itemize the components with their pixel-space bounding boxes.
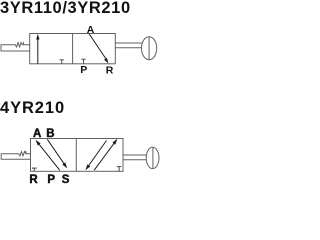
svg-text:A: A — [33, 128, 41, 140]
V2 right cell diagonal arrow A to R — [88, 141, 106, 167]
svg-text:R: R — [106, 65, 114, 77]
V1 right cell flow diagonal A to R — [89, 34, 106, 60]
svg-text:S: S — [62, 174, 70, 185]
V2 right cell blocked port T — [118, 167, 120, 172]
V2 left cell diagonal arrow P to A — [37, 142, 60, 170]
spring housing rect V1 — [1, 45, 30, 51]
push button stem line V2 — [152, 147, 154, 168]
V2 left cell diagonal arrow B to S — [47, 139, 65, 165]
push button ellipse V2 — [146, 147, 159, 168]
valve V2 box divider — [75, 139, 77, 172]
V1 right cell blocked port T — [83, 59, 85, 64]
push button stem line V1 — [148, 37, 150, 60]
spring tick V2 — [25, 151, 27, 154]
svg-text:B: B — [46, 128, 54, 140]
svg-text:R: R — [29, 174, 38, 185]
svg-text:P: P — [47, 174, 55, 185]
title 3YR110/3YR210 — [0, 0, 131, 18]
spring zigzag V1 — [15, 43, 30, 47]
V2 left cell blocked port T — [33, 168, 35, 171]
plunger rod V2 — [123, 154, 147, 156]
V1 left cell blocked port T — [61, 60, 63, 64]
spring zigzag V2 — [19, 152, 31, 156]
svg-text:A: A — [87, 24, 95, 36]
svg-text:P: P — [80, 64, 87, 76]
plunger rod V1 — [115, 42, 142, 44]
title 4YR210 — [0, 99, 65, 118]
V1 left cell flow arrow P to A — [37, 38, 39, 64]
valve V1 body box — [30, 34, 116, 64]
spring tick V1 — [22, 42, 24, 45]
V2 right cell diagonal arrow P to B — [94, 142, 115, 170]
spring housing rect V2 — [1, 154, 30, 160]
push button ellipse V1 — [142, 37, 157, 60]
valve V1 box divider — [72, 34, 74, 64]
valve V2 body box — [31, 139, 124, 172]
